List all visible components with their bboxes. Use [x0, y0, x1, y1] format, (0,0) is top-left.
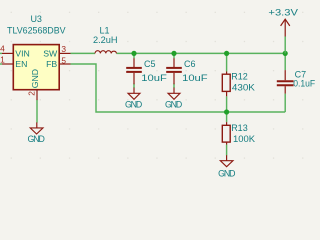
- svg-text:TLV62568DBV: TLV62568DBV: [7, 25, 66, 35]
- inductor L1 coil: [95, 51, 117, 54]
- svg-text:GND: GND: [28, 134, 45, 144]
- svg-text:C6: C6: [184, 59, 196, 69]
- svg-text:EN: EN: [15, 59, 27, 69]
- wire SW pin to inductor: [71, 52, 96, 54]
- svg-text:R13: R13: [231, 123, 248, 133]
- svg-text:2.2uH: 2.2uH: [93, 35, 118, 45]
- wire R13 bottom to gnd: [226, 145, 228, 156]
- svg-text:+3.3V: +3.3V: [268, 8, 298, 19]
- svg-text:R12: R12: [231, 72, 248, 82]
- resistor R12: [222, 72, 230, 97]
- pin 5 FB stub: [59, 63, 70, 65]
- junction C5/top wire: [131, 51, 136, 56]
- ground under C5: [128, 88, 140, 100]
- svg-text:U3: U3: [30, 14, 42, 24]
- wire C5 bottom to gnd: [133, 84, 135, 89]
- svg-text:100K: 100K: [233, 134, 255, 144]
- junction C6/top wire: [171, 51, 176, 56]
- junction C7/+3.3V/top wire: [283, 51, 288, 56]
- wire R12 top: [226, 53, 228, 71]
- wire C5 top: [133, 53, 135, 58]
- svg-text:GND: GND: [218, 168, 235, 178]
- power +3.3V symbol: [281, 19, 290, 36]
- wire into pin 1 at canvas edge: [0, 63, 2, 65]
- wire into pin 4 at canvas edge: [0, 52, 2, 54]
- ground under R13: [220, 155, 233, 167]
- svg-text:3: 3: [61, 44, 66, 54]
- svg-text:VIN: VIN: [15, 49, 29, 59]
- svg-text:FB: FB: [46, 59, 57, 69]
- IC U3 TLV62568DBV body: [13, 45, 59, 90]
- wire R13 top: [226, 112, 228, 122]
- resistor R13: [222, 122, 230, 145]
- svg-text:10uF: 10uF: [141, 73, 167, 83]
- svg-text:L1: L1: [99, 26, 109, 36]
- wire inductor to +3.3V corner: [117, 52, 286, 54]
- svg-text:GND: GND: [30, 69, 40, 88]
- svg-text:SW: SW: [43, 49, 58, 59]
- svg-text:5: 5: [61, 55, 66, 65]
- ground under chip pin 2: [30, 122, 43, 134]
- svg-text:C5: C5: [144, 59, 156, 69]
- svg-text:2: 2: [26, 91, 36, 96]
- svg-text:10uF: 10uF: [182, 73, 208, 83]
- wire C7 bottom: [284, 94, 286, 112]
- wire below +3.3V symbol: [284, 37, 286, 54]
- svg-text:GND: GND: [125, 100, 142, 110]
- wire FB net: pin to corner, down, across to C7: [71, 64, 286, 112]
- svg-text:430K: 430K: [232, 83, 255, 93]
- capacitor C7: [277, 70, 294, 94]
- pin 3 SW stub: [59, 52, 70, 54]
- wire C6 top: [173, 53, 175, 58]
- junction R12/top wire: [224, 51, 229, 56]
- svg-text:GND: GND: [165, 100, 182, 110]
- wire chip GND pin down: [36, 100, 38, 123]
- svg-text:0.1uF: 0.1uF: [293, 78, 315, 88]
- wire C7 top: [284, 53, 286, 70]
- svg-text:4: 4: [0, 44, 5, 54]
- pin 2 GND stub: [36, 90, 38, 100]
- wire R12 bottom: [226, 96, 228, 112]
- pin 4 VIN stub: [2, 52, 13, 54]
- junction R12-R13/FB wire: [224, 109, 229, 114]
- capacitor C6: [166, 58, 182, 84]
- svg-text:1: 1: [0, 54, 5, 64]
- pin 1 EN stub: [2, 63, 13, 65]
- ground under C6: [168, 88, 180, 100]
- capacitor C5: [126, 58, 142, 84]
- wire C6 bottom to gnd: [173, 84, 175, 89]
